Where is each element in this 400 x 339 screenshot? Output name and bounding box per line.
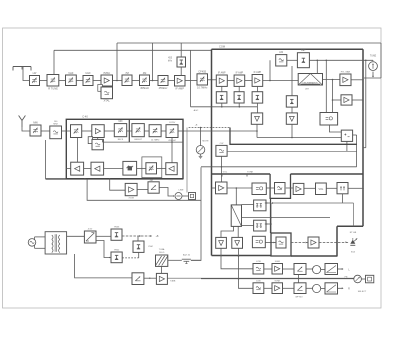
wire	[283, 287, 295, 289]
block U9 power osc	[276, 237, 286, 248]
transistor Q4 mute	[286, 96, 297, 107]
svg-text:MUTE: MUTE	[202, 140, 209, 142]
svg-text:IF AMP: IF AMP	[236, 71, 244, 74]
block A5 IF amp 3	[252, 75, 263, 87]
wire ant2 feed	[22, 127, 30, 131]
wire	[185, 80, 197, 82]
svg-text:10.7MHz: 10.7MHz	[197, 86, 208, 90]
block A6 AFC amp	[340, 74, 351, 86]
wire AGC drop to RF	[116, 43, 118, 81]
box power amp module	[271, 233, 291, 256]
svg-text:CONV: CONV	[169, 122, 176, 124]
wire if out	[178, 130, 183, 132]
wire pilot out	[353, 134, 357, 136]
wire s-meter column	[365, 60, 367, 147]
svg-text:100K: 100K	[256, 280, 261, 282]
svg-text:CF455: CF455	[198, 69, 206, 73]
block SL2 tone L	[294, 264, 306, 275]
wire	[59, 80, 66, 82]
block SL4 dial lamp driver	[132, 273, 144, 285]
wire in	[212, 187, 216, 189]
svg-text:100M: 100M	[275, 261, 280, 263]
meter M2 mute meter	[196, 146, 205, 155]
svg-text:TONE: TONE	[247, 171, 254, 173]
wire	[266, 187, 274, 189]
wire amp to osc	[97, 138, 99, 140]
wire thick partition	[270, 198, 272, 233]
audio IC thick top edge	[212, 173, 271, 175]
svg-text:VOL: VOL	[319, 188, 324, 191]
wire afc out	[351, 79, 363, 81]
wire x4 link	[265, 223, 271, 225]
wire matrix-x3	[242, 204, 254, 206]
wire q5 out B+	[122, 235, 152, 237]
block FL7 IF filter	[158, 76, 168, 86]
wire	[291, 242, 308, 244]
wire	[104, 168, 123, 170]
block A1 mixer amp	[101, 75, 113, 86]
wire	[67, 235, 85, 237]
page border frame	[3, 28, 382, 308]
block A10 prescaler	[91, 162, 104, 175]
block A14 driver	[293, 183, 304, 194]
wire prescaler left	[66, 168, 70, 170]
jack J4 select	[354, 275, 362, 283]
wire balance line	[201, 278, 354, 280]
wire	[93, 80, 101, 82]
svg-text:74BB: 74BB	[170, 281, 176, 283]
wire	[245, 80, 252, 82]
box FL14 enclosure	[142, 157, 162, 178]
block A12 reg amp	[125, 183, 137, 195]
block FL5	[122, 75, 132, 86]
wire	[127, 130, 132, 132]
wire to cap	[168, 259, 182, 261]
block FL12 IF2	[149, 125, 161, 137]
wire	[283, 268, 295, 270]
wire q1 to bus	[221, 103, 223, 107]
wire rail to amp74	[110, 179, 126, 190]
block FL8 ceramic filter	[197, 74, 208, 85]
wire	[150, 80, 159, 82]
wire	[157, 168, 166, 170]
transistor Q7 reg	[133, 241, 144, 252]
block U3 stereo decoder	[320, 113, 338, 126]
block MX matrix	[231, 205, 241, 227]
svg-text:LOW: LOW	[256, 261, 261, 263]
svg-text:IF AMP: IF AMP	[175, 87, 184, 91]
jack J1 line out	[175, 193, 182, 200]
svg-text:VOL: VOL	[223, 171, 228, 173]
block A16 power amp L	[272, 264, 283, 275]
wire AGC down right	[190, 50, 192, 107]
wire det top	[180, 43, 182, 57]
svg-text:PTL GAR: PTL GAR	[341, 71, 351, 74]
wire to pilot	[330, 125, 342, 132]
svg-text:TR62: TR62	[114, 249, 120, 251]
wire	[132, 80, 140, 82]
svg-text:455kHz: 455kHz	[159, 86, 168, 90]
svg-text:DISCRIMINATOR: DISCRIMINATOR	[303, 81, 319, 84]
svg-text:BECK: BECK	[118, 139, 124, 141]
wire disc out	[323, 79, 340, 81]
wire audio box bottom link	[191, 258, 201, 261]
wire ac-transformer	[35, 236, 46, 238]
wire line-out feed	[186, 128, 188, 193]
wire amp2-q2	[238, 86, 240, 91]
wire	[161, 266, 163, 273]
wire	[82, 130, 92, 132]
wire	[304, 187, 316, 189]
wire det to disc	[316, 60, 318, 73]
block FL14 loop filter	[146, 163, 157, 174]
wire q7 down	[138, 252, 140, 258]
connector CN2 select	[366, 275, 374, 283]
wire vco sample 2	[171, 138, 173, 163]
svg-text:455kHz: 455kHz	[140, 86, 149, 90]
wire det to amp	[180, 67, 182, 76]
wire	[76, 80, 83, 82]
wire	[265, 242, 276, 244]
wire v1 out	[256, 124, 258, 137]
svg-text:MW: MW	[33, 121, 38, 125]
svg-text:100.5: 100.5	[159, 252, 165, 254]
wire osc bus y142	[103, 141, 184, 143]
wire B+ dashed	[189, 127, 230, 129]
block SL3 tone R	[294, 283, 306, 294]
wire	[137, 189, 148, 191]
block A4 IF amp 2	[234, 75, 245, 86]
block U5 CW osc	[216, 145, 227, 156]
svg-text:RT HB: RT HB	[350, 232, 357, 234]
block FL1 input filter	[30, 76, 40, 86]
wire	[264, 268, 272, 270]
svg-text:LIM: LIM	[279, 52, 283, 54]
wire	[40, 80, 48, 82]
block FL3 VHF filter	[66, 75, 77, 86]
block D1 AM det	[177, 57, 186, 67]
wire cap to box	[191, 259, 201, 261]
wire	[306, 268, 313, 270]
source AC mains	[28, 239, 36, 247]
transistor Q6 reg	[111, 252, 122, 263]
svg-text:R TUNE: R TUNE	[48, 87, 58, 91]
block U4 pilot	[341, 130, 352, 141]
svg-text:AGC: AGC	[194, 109, 199, 112]
svg-text:HEIGHT: HEIGHT	[134, 139, 142, 141]
wire	[84, 168, 91, 170]
wire AFC drop	[152, 43, 154, 81]
wire mute meter drop	[200, 128, 202, 146]
wire arrow R out	[338, 287, 343, 289]
wire preamp out	[227, 187, 252, 189]
wire AGC bus	[191, 106, 258, 108]
block FL15 ripple filter	[156, 255, 168, 266]
block FL2 tuning filter	[47, 75, 59, 87]
wire	[321, 288, 325, 290]
block U8 bias osc	[252, 236, 265, 247]
wire AGC line y50	[54, 49, 212, 51]
block A9 prescaler	[71, 162, 84, 175]
block FL10 RF filter	[71, 125, 82, 138]
svg-text:LW: LW	[33, 71, 37, 75]
wire vco sample 1	[76, 138, 78, 163]
block FL6 IF filter	[140, 75, 150, 86]
wire	[113, 80, 123, 82]
svg-text:TONE: TONE	[274, 280, 280, 282]
svg-text:AQT 42: AQT 42	[183, 254, 191, 257]
block FL13 IF3	[166, 125, 178, 138]
block PD phase det	[123, 161, 137, 175]
wire v4 down	[239, 248, 254, 288]
transistor Q2 AGC	[234, 92, 244, 103]
wire	[326, 187, 337, 189]
block A15 headphone amp	[308, 237, 319, 248]
wire lim-q4	[291, 66, 293, 96]
transformer T2	[45, 232, 67, 254]
wire AM bus thick	[230, 128, 357, 145]
connector CN1	[189, 193, 196, 200]
block D2 FM det	[297, 53, 309, 68]
block MIX mixer	[114, 124, 126, 137]
wire amp3-q3	[256, 86, 258, 91]
block AT1 att L	[325, 264, 338, 275]
svg-text:TR43: TR43	[114, 226, 120, 228]
wire	[96, 235, 111, 237]
wire rail to bus200	[87, 179, 201, 200]
speaker SP ext	[350, 240, 355, 244]
block P2 eq R	[253, 283, 264, 294]
jack J2 speaker L	[313, 266, 321, 274]
block A18 AF out	[156, 273, 167, 284]
block small coupling	[98, 85, 103, 92]
jack J3 speaker R	[313, 284, 321, 292]
block A17 power amp R	[272, 283, 283, 294]
block A2 IF amp	[175, 76, 186, 87]
svg-text:10.7MHZ: 10.7MHZ	[151, 140, 160, 142]
audio box outline	[201, 166, 357, 168]
svg-text:7MSC: 7MSC	[103, 71, 110, 75]
wire to limiter	[269, 60, 271, 80]
wire matrix-x4	[242, 225, 254, 227]
wire tone feedback	[342, 194, 344, 203]
wire pm junction down	[356, 135, 358, 167]
block V1 det driver	[251, 113, 262, 124]
wire AGC feedback top y43	[117, 42, 381, 44]
svg-text:R: R	[348, 288, 350, 291]
discriminator T1	[298, 74, 322, 86]
wire cw down to AF	[221, 156, 223, 182]
wire q5-q7	[137, 236, 139, 241]
wire to IC	[208, 79, 217, 81]
wire feedback dashed	[272, 202, 353, 204]
wire to line out	[159, 188, 174, 197]
block V3 out driver L	[216, 237, 227, 248]
tuner box C-40 outline	[66, 119, 183, 178]
svg-text:MHZ: MHZ	[53, 124, 58, 126]
block VR1 volume	[316, 183, 327, 195]
block SL1 slope det	[148, 182, 159, 193]
wire	[321, 269, 325, 271]
wire arrow L out	[338, 268, 343, 270]
block FL4 RF filter	[83, 76, 93, 86]
block X4 xtal 2	[254, 220, 266, 231]
wire	[161, 130, 166, 132]
wire slope link	[297, 275, 299, 283]
wire	[227, 80, 234, 82]
svg-text:4M: 4M	[143, 71, 147, 75]
wire	[144, 277, 157, 279]
wire	[319, 242, 349, 244]
wire	[104, 130, 114, 132]
block X1 local osc	[101, 87, 113, 99]
block U6 mpx	[252, 183, 266, 195]
svg-text:C5M: C5M	[148, 246, 153, 248]
block FL11 IF1	[132, 124, 144, 137]
block U2 limiter	[276, 55, 287, 66]
wire	[286, 187, 293, 189]
wire	[287, 59, 298, 61]
svg-text:LINE: LINE	[179, 190, 184, 192]
wire transformer lamp feed	[75, 254, 132, 278]
wire det to meter	[309, 59, 373, 61]
wire down to audio det 1	[325, 60, 327, 112]
svg-text:TU8A: TU8A	[159, 248, 165, 251]
box U7 enclosure	[270, 174, 290, 198]
wire	[168, 80, 175, 82]
block V4 out driver R	[232, 237, 243, 248]
antenna ANT1 (telescopic)	[13, 66, 31, 68]
wire matrix out R	[237, 226, 239, 237]
block A13 AF preamp	[216, 182, 228, 194]
svg-text:VHF: VHF	[68, 71, 74, 75]
svg-text:IF AMP: IF AMP	[218, 71, 226, 74]
block U7 osc	[275, 183, 286, 194]
wire rail left drop	[45, 140, 47, 179]
transistor Q1 AGC	[216, 92, 227, 103]
block A11 buffer	[166, 163, 177, 175]
block A8 RF amp	[92, 125, 104, 138]
wire xtal right rail	[265, 202, 271, 204]
wire af out long	[167, 277, 353, 279]
block X2 local osc	[92, 139, 103, 149]
wire rect to q6	[96, 241, 111, 258]
capacitor C1	[182, 258, 191, 260]
wire	[144, 130, 149, 132]
wire	[264, 287, 272, 289]
wire B+ rail thick	[46, 178, 184, 180]
svg-text:DET: DET	[301, 50, 306, 52]
wire q4 down	[291, 107, 293, 113]
wire	[306, 287, 313, 289]
wire q6-q7 dashed	[122, 257, 139, 259]
wire	[62, 130, 71, 132]
svg-text:IF AMP: IF AMP	[254, 71, 262, 74]
wire feedback down	[353, 203, 355, 226]
wire v2 to pilot	[292, 137, 341, 139]
svg-text:TUNE: TUNE	[370, 56, 377, 58]
wire IF link to tuner box	[183, 130, 257, 132]
svg-text:+B: +B	[156, 236, 159, 238]
wire matrix out L	[221, 226, 234, 237]
wire	[137, 168, 146, 170]
wire q3 down	[256, 103, 258, 113]
block AT2 att R	[325, 283, 338, 294]
wire v3 down	[221, 248, 253, 268]
wire down to audio det 2	[332, 80, 334, 113]
block V2 det driver	[286, 113, 297, 124]
wire antenna feed	[23, 67, 30, 81]
wire q2 to bus	[238, 103, 240, 107]
wire a7 out	[352, 99, 363, 101]
meter M1 tuning meter	[369, 62, 378, 71]
block FE front end	[50, 126, 62, 139]
wire matrix tap line	[242, 217, 331, 219]
wire	[348, 187, 363, 189]
transistor Q3 AGC	[252, 92, 263, 103]
IC1 box outline	[212, 48, 364, 50]
transistor Q5 reg	[111, 229, 122, 240]
block RECT rectifier	[84, 231, 96, 243]
wire to matrix	[235, 188, 237, 205]
wire amp1-q1	[221, 86, 223, 91]
svg-text:C-40: C-40	[82, 115, 88, 119]
ground mute	[200, 154, 202, 156]
svg-text:WF MO: WF MO	[295, 296, 303, 298]
block coupling small	[88, 137, 92, 144]
svg-text:4.5V: 4.5V	[88, 229, 93, 231]
block FL9 AM ant filter	[30, 125, 41, 136]
block VR2 tone	[337, 183, 348, 194]
svg-text:UHF: UHF	[85, 71, 91, 75]
block A7 meter amp	[341, 95, 352, 105]
wire cw out	[227, 150, 357, 152]
tuner box partition	[128, 119, 130, 142]
wire pilot down	[346, 141, 348, 151]
wire	[361, 278, 365, 280]
wire amp3 out	[263, 80, 298, 82]
block P1 eq L	[253, 264, 264, 275]
block A3 IF amp 1	[216, 75, 227, 86]
svg-text:74.88: 74.88	[128, 197, 134, 199]
wire	[41, 130, 50, 132]
wire a7 in	[333, 99, 342, 101]
wire meter ground arrow	[372, 72, 374, 77]
svg-text:COM: COM	[219, 44, 225, 48]
svg-text:SELECT: SELECT	[358, 291, 367, 293]
wire	[182, 195, 189, 197]
svg-text:MIX: MIX	[118, 121, 123, 123]
svg-text:7M: 7M	[125, 71, 129, 75]
antenna ANT2 FM rod	[19, 116, 22, 121]
wire v2 out	[257, 124, 292, 137]
svg-text:XTAL: XTAL	[104, 99, 111, 103]
block X3 xtal 1	[254, 200, 266, 211]
